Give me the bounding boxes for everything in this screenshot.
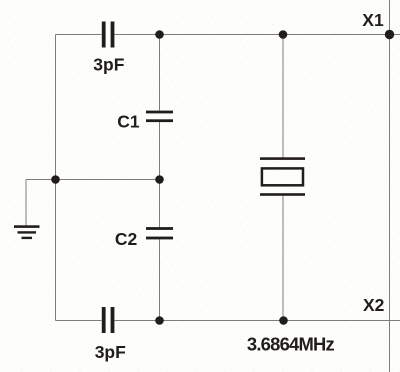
ground [14,225,40,239]
junction: top net / X1 bus [385,30,394,39]
crystal 3.6864MHz [260,157,305,196]
junction: bottom net / crystal lead [279,316,288,325]
wire: bottom net, left corner to bottom 3pF capacitor [56,320,102,322]
svg-text:3.6864MHz: 3.6864MHz [247,333,335,354]
junction: top net / crystal lead [279,30,288,39]
junction: top net / center rail [155,30,164,39]
wire: crystal bottom lead [282,196,284,321]
svg-text:C2: C2 [115,229,138,249]
wire: center rail, C1 to C2 [159,122,161,227]
wire: center rail, C2 to bottom net [159,240,161,321]
svg-text:3pF: 3pF [93,55,124,75]
wire: ground stem [25,180,27,226]
svg-text:3pF: 3pF [95,342,126,362]
wire: middle net, ground stem top to C1/C2 junction [26,179,160,181]
svg-text:X2: X2 [363,295,385,315]
svg-text:C1: C1 [117,112,140,132]
junction: bottom net / center rail [155,316,164,325]
capacitor C1 [146,111,173,123]
wire: top net, top 3pF capacitor to right edge (X1) [115,34,400,36]
capacitor 3pF (top) [102,22,115,48]
wire: center rail, top net to C1 [159,35,161,111]
wire: crystal top lead [282,35,284,158]
junction: middle net / left rail [51,175,60,184]
wire: right vertical rail (X1/X2 bus) [389,0,391,372]
junction: middle net / center rail [155,175,164,184]
capacitor C2 [146,227,173,239]
wire: bottom net, bottom 3pF capacitor to right edge (X2) [115,320,400,322]
wire: top net, left corner to top 3pF capacitor [56,34,102,36]
capacitor 3pF (bottom) [102,307,115,333]
wire: left vertical rail [55,35,57,321]
svg-text:X1: X1 [362,10,384,30]
